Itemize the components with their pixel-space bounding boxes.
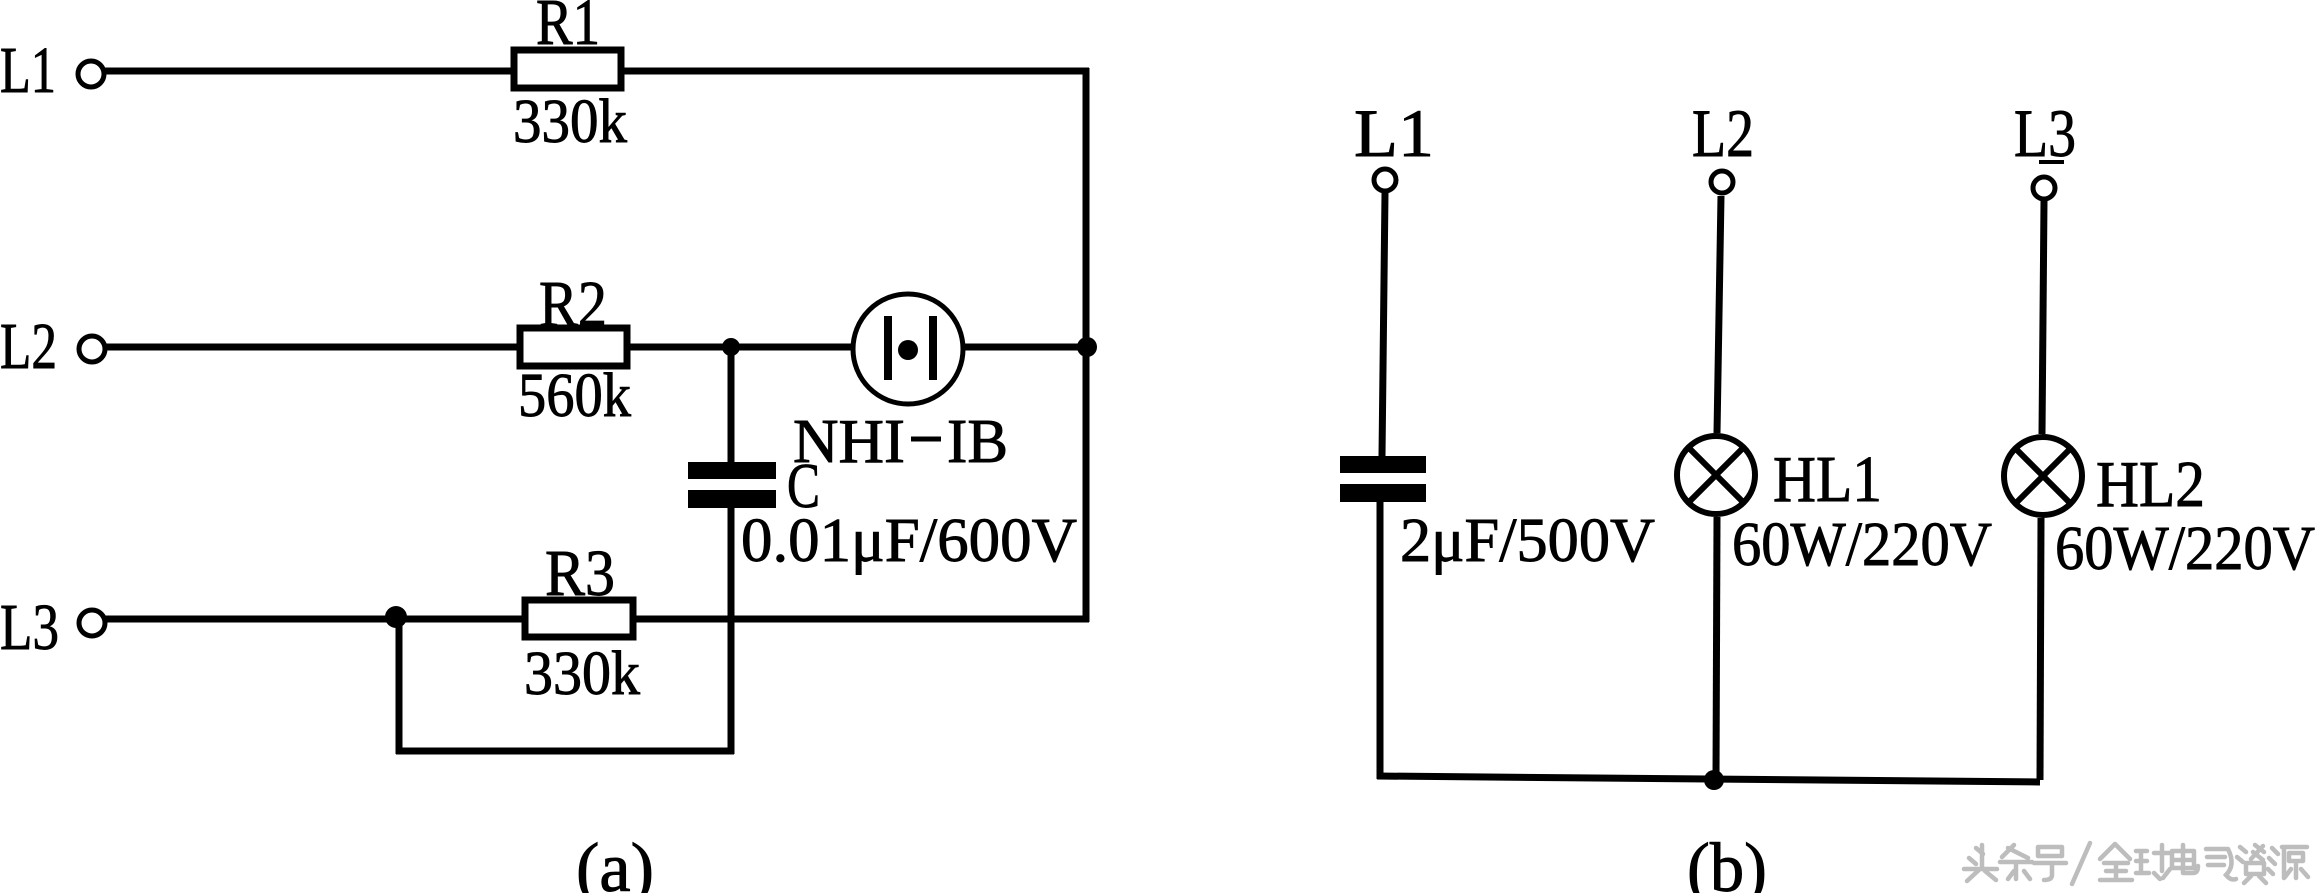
svg-text:L1: L1 xyxy=(0,34,56,107)
svg-text:330k: 330k xyxy=(524,640,640,708)
svg-text:L2: L2 xyxy=(0,310,57,383)
svg-text:IB: IB xyxy=(947,408,1008,476)
svg-text:560k: 560k xyxy=(518,362,631,430)
svg-text:60W/220V: 60W/220V xyxy=(1732,511,1992,579)
svg-text:L1: L1 xyxy=(1354,95,1434,171)
svg-text:(b): (b) xyxy=(1687,830,1767,893)
svg-text:HL1: HL1 xyxy=(1773,443,1882,516)
svg-text:60W/220V: 60W/220V xyxy=(2055,515,2315,583)
svg-text:330k: 330k xyxy=(513,88,627,156)
svg-text:R2: R2 xyxy=(539,268,607,341)
svg-text:R1: R1 xyxy=(536,0,600,59)
svg-text:0.01μF/600V: 0.01μF/600V xyxy=(741,507,1077,575)
svg-text:HL2: HL2 xyxy=(2096,448,2205,521)
svg-text:2μF/500V: 2μF/500V xyxy=(1400,507,1655,575)
svg-text:L2: L2 xyxy=(1692,95,1754,171)
svg-text:(a): (a) xyxy=(576,830,654,893)
svg-text:R3: R3 xyxy=(545,537,615,610)
svg-text:L3: L3 xyxy=(0,591,59,664)
svg-text:L3: L3 xyxy=(2014,95,2076,171)
